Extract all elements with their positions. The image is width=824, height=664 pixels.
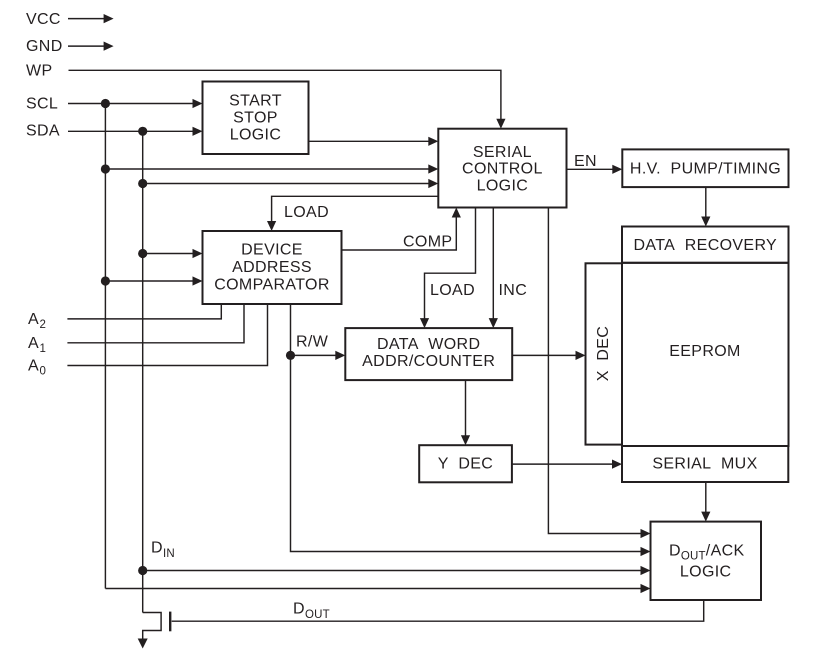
svg-text:2: 2	[40, 319, 47, 331]
svg-text:STOP: STOP	[233, 109, 278, 126]
wire start stop logic to serial control logic	[309, 137, 439, 146]
svg-text:INC: INC	[499, 282, 528, 299]
block DOUT ACK LOGIC	[651, 522, 762, 600]
junction SCL serial feed	[101, 164, 110, 173]
pin label A1	[28, 335, 46, 355]
block DATA RECOVERY	[622, 227, 789, 263]
wire A2	[67, 304, 221, 319]
svg-text:COMPARATOR: COMPARATOR	[214, 277, 330, 294]
block EEPROM	[622, 263, 789, 446]
svg-text:A: A	[28, 335, 39, 352]
wire transistor source to output arrow	[138, 639, 148, 649]
svg-text:ADDRESS: ADDRESS	[232, 259, 312, 276]
block SERIAL MUX	[622, 446, 788, 482]
svg-text:VCC: VCC	[26, 11, 61, 28]
junction SCL	[101, 99, 110, 108]
svg-text:D: D	[293, 601, 305, 618]
block SERIAL CONTROL LOGIC	[438, 129, 566, 208]
svg-text:0: 0	[40, 366, 47, 378]
svg-text:LOGIC: LOGIC	[680, 563, 732, 580]
wire COMP device address comparator to serial	[342, 208, 461, 251]
junction SCL device feed	[101, 276, 110, 285]
svg-text:START: START	[229, 92, 282, 109]
svg-text:WP: WP	[26, 63, 52, 80]
wire SCL vertical bus	[104, 104, 106, 589]
svg-text:H.V. PUMP/TIMING: H.V. PUMP/TIMING	[630, 161, 781, 178]
wire hv pump to data recovery	[701, 187, 710, 226]
svg-text:DEVICE: DEVICE	[241, 242, 303, 259]
svg-text:LOGIC: LOGIC	[230, 126, 282, 143]
wire R/W vertical to dout ack logic	[291, 304, 651, 556]
wire SDA to device address comparator	[143, 249, 203, 258]
svg-text:GND: GND	[26, 38, 63, 55]
svg-text:COMP: COMP	[403, 234, 452, 251]
svg-text:SERIAL: SERIAL	[473, 144, 532, 161]
svg-text:LOAD: LOAD	[284, 204, 329, 221]
pin label DOUT	[293, 601, 330, 622]
svg-text:CONTROL: CONTROL	[462, 161, 543, 178]
transistor Q1 output driver channel	[143, 613, 161, 641]
wire R/W to data word counter	[291, 351, 346, 360]
block DEVICE ADDRESS COMPARATOR	[203, 231, 342, 304]
wire DIN to dout ack logic	[143, 566, 651, 575]
svg-text:D: D	[151, 540, 163, 557]
svg-text:EN: EN	[574, 153, 597, 170]
svg-text:R/W: R/W	[296, 334, 329, 351]
transistor Q1 gate bar	[169, 612, 171, 632]
junction SDA	[138, 127, 147, 136]
junction SDA device feed	[138, 249, 147, 258]
svg-text:SDA: SDA	[26, 123, 60, 140]
wire y dec to serial mux	[512, 460, 622, 469]
svg-text:EEPROM: EEPROM	[669, 343, 740, 360]
svg-text:OUT: OUT	[305, 609, 330, 621]
wire SCL bottom to dout ack logic	[105, 584, 650, 593]
block START STOP LOGIC	[203, 82, 309, 155]
svg-text:IN: IN	[163, 548, 175, 560]
block HV PUMP TIMING	[622, 149, 788, 187]
wire SCL to start stop logic	[68, 99, 203, 108]
svg-text:SERIAL MUX: SERIAL MUX	[652, 456, 757, 473]
wire data word counter to x dec	[512, 351, 585, 360]
wire LOAD serial to device address comparator	[267, 196, 438, 231]
wire serial control to dout ack logic	[548, 208, 650, 539]
wire LOAD serial to data word counter	[420, 208, 476, 329]
wire VCC arrow	[68, 14, 114, 23]
wire SDA vertical bus	[142, 131, 144, 612]
svg-text:A: A	[28, 311, 39, 328]
svg-text:X DEC: X DEC	[595, 326, 612, 381]
wire SDA to serial control logic	[143, 179, 439, 188]
wire INC serial to data word counter	[489, 208, 498, 329]
junction DIN	[138, 566, 147, 575]
pin label A2	[28, 311, 46, 331]
wire SDA to start stop logic	[68, 127, 203, 136]
junction R/W	[286, 351, 295, 360]
svg-text:LOAD: LOAD	[430, 282, 475, 299]
svg-text:1: 1	[40, 343, 47, 355]
wire WP to serial control logic top	[69, 70, 506, 128]
svg-text:DATA WORD: DATA WORD	[377, 336, 480, 353]
svg-text:ADDR/COUNTER: ADDR/COUNTER	[362, 353, 495, 370]
svg-text:A: A	[28, 358, 39, 375]
block X DEC	[586, 263, 623, 444]
pin label DIN	[151, 540, 175, 561]
wire SCL to device address comparator	[105, 276, 202, 285]
wire GND arrow	[68, 42, 114, 51]
wire data word counter to y dec	[461, 380, 470, 445]
block DATA WORD ADDR COUNTER	[345, 328, 512, 380]
wire SCL to serial control logic	[105, 164, 438, 173]
svg-text:LOGIC: LOGIC	[477, 177, 529, 194]
wire serial mux to dout ack logic	[701, 482, 710, 522]
block Y DEC	[419, 445, 512, 482]
svg-text:DATA RECOVERY: DATA RECOVERY	[633, 237, 777, 254]
wire A1	[67, 304, 244, 343]
pin label A0	[28, 358, 46, 378]
svg-text:Y DEC: Y DEC	[438, 456, 493, 473]
junction SDA serial feed	[138, 179, 147, 188]
wire DOUT from dout ack logic to output transistor gate	[172, 600, 704, 621]
wire EN serial control to hv pump	[567, 165, 623, 174]
svg-text:SCL: SCL	[26, 96, 58, 113]
wire A0	[67, 304, 267, 366]
